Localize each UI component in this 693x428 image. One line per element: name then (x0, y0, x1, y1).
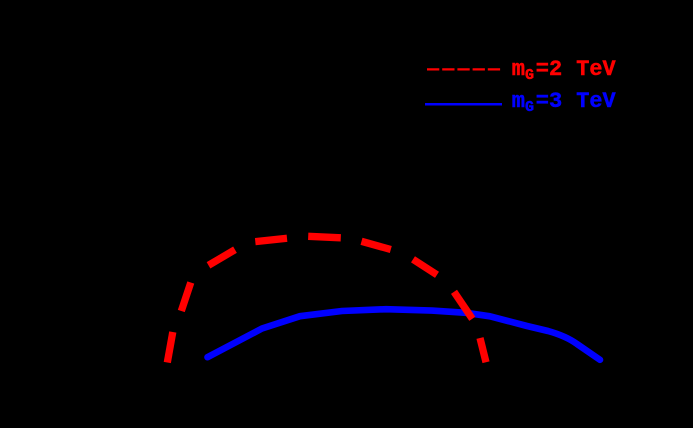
svg-text:m: m (512, 89, 525, 114)
svg-text:=3: =3 (536, 89, 562, 114)
svg-text:TeV: TeV (576, 89, 616, 114)
svg-text:TeV: TeV (576, 57, 616, 82)
svg-text:=2: =2 (536, 57, 562, 82)
svg-text:m: m (512, 57, 525, 82)
svg-text:G: G (525, 99, 534, 116)
svg-text:G: G (525, 67, 534, 84)
